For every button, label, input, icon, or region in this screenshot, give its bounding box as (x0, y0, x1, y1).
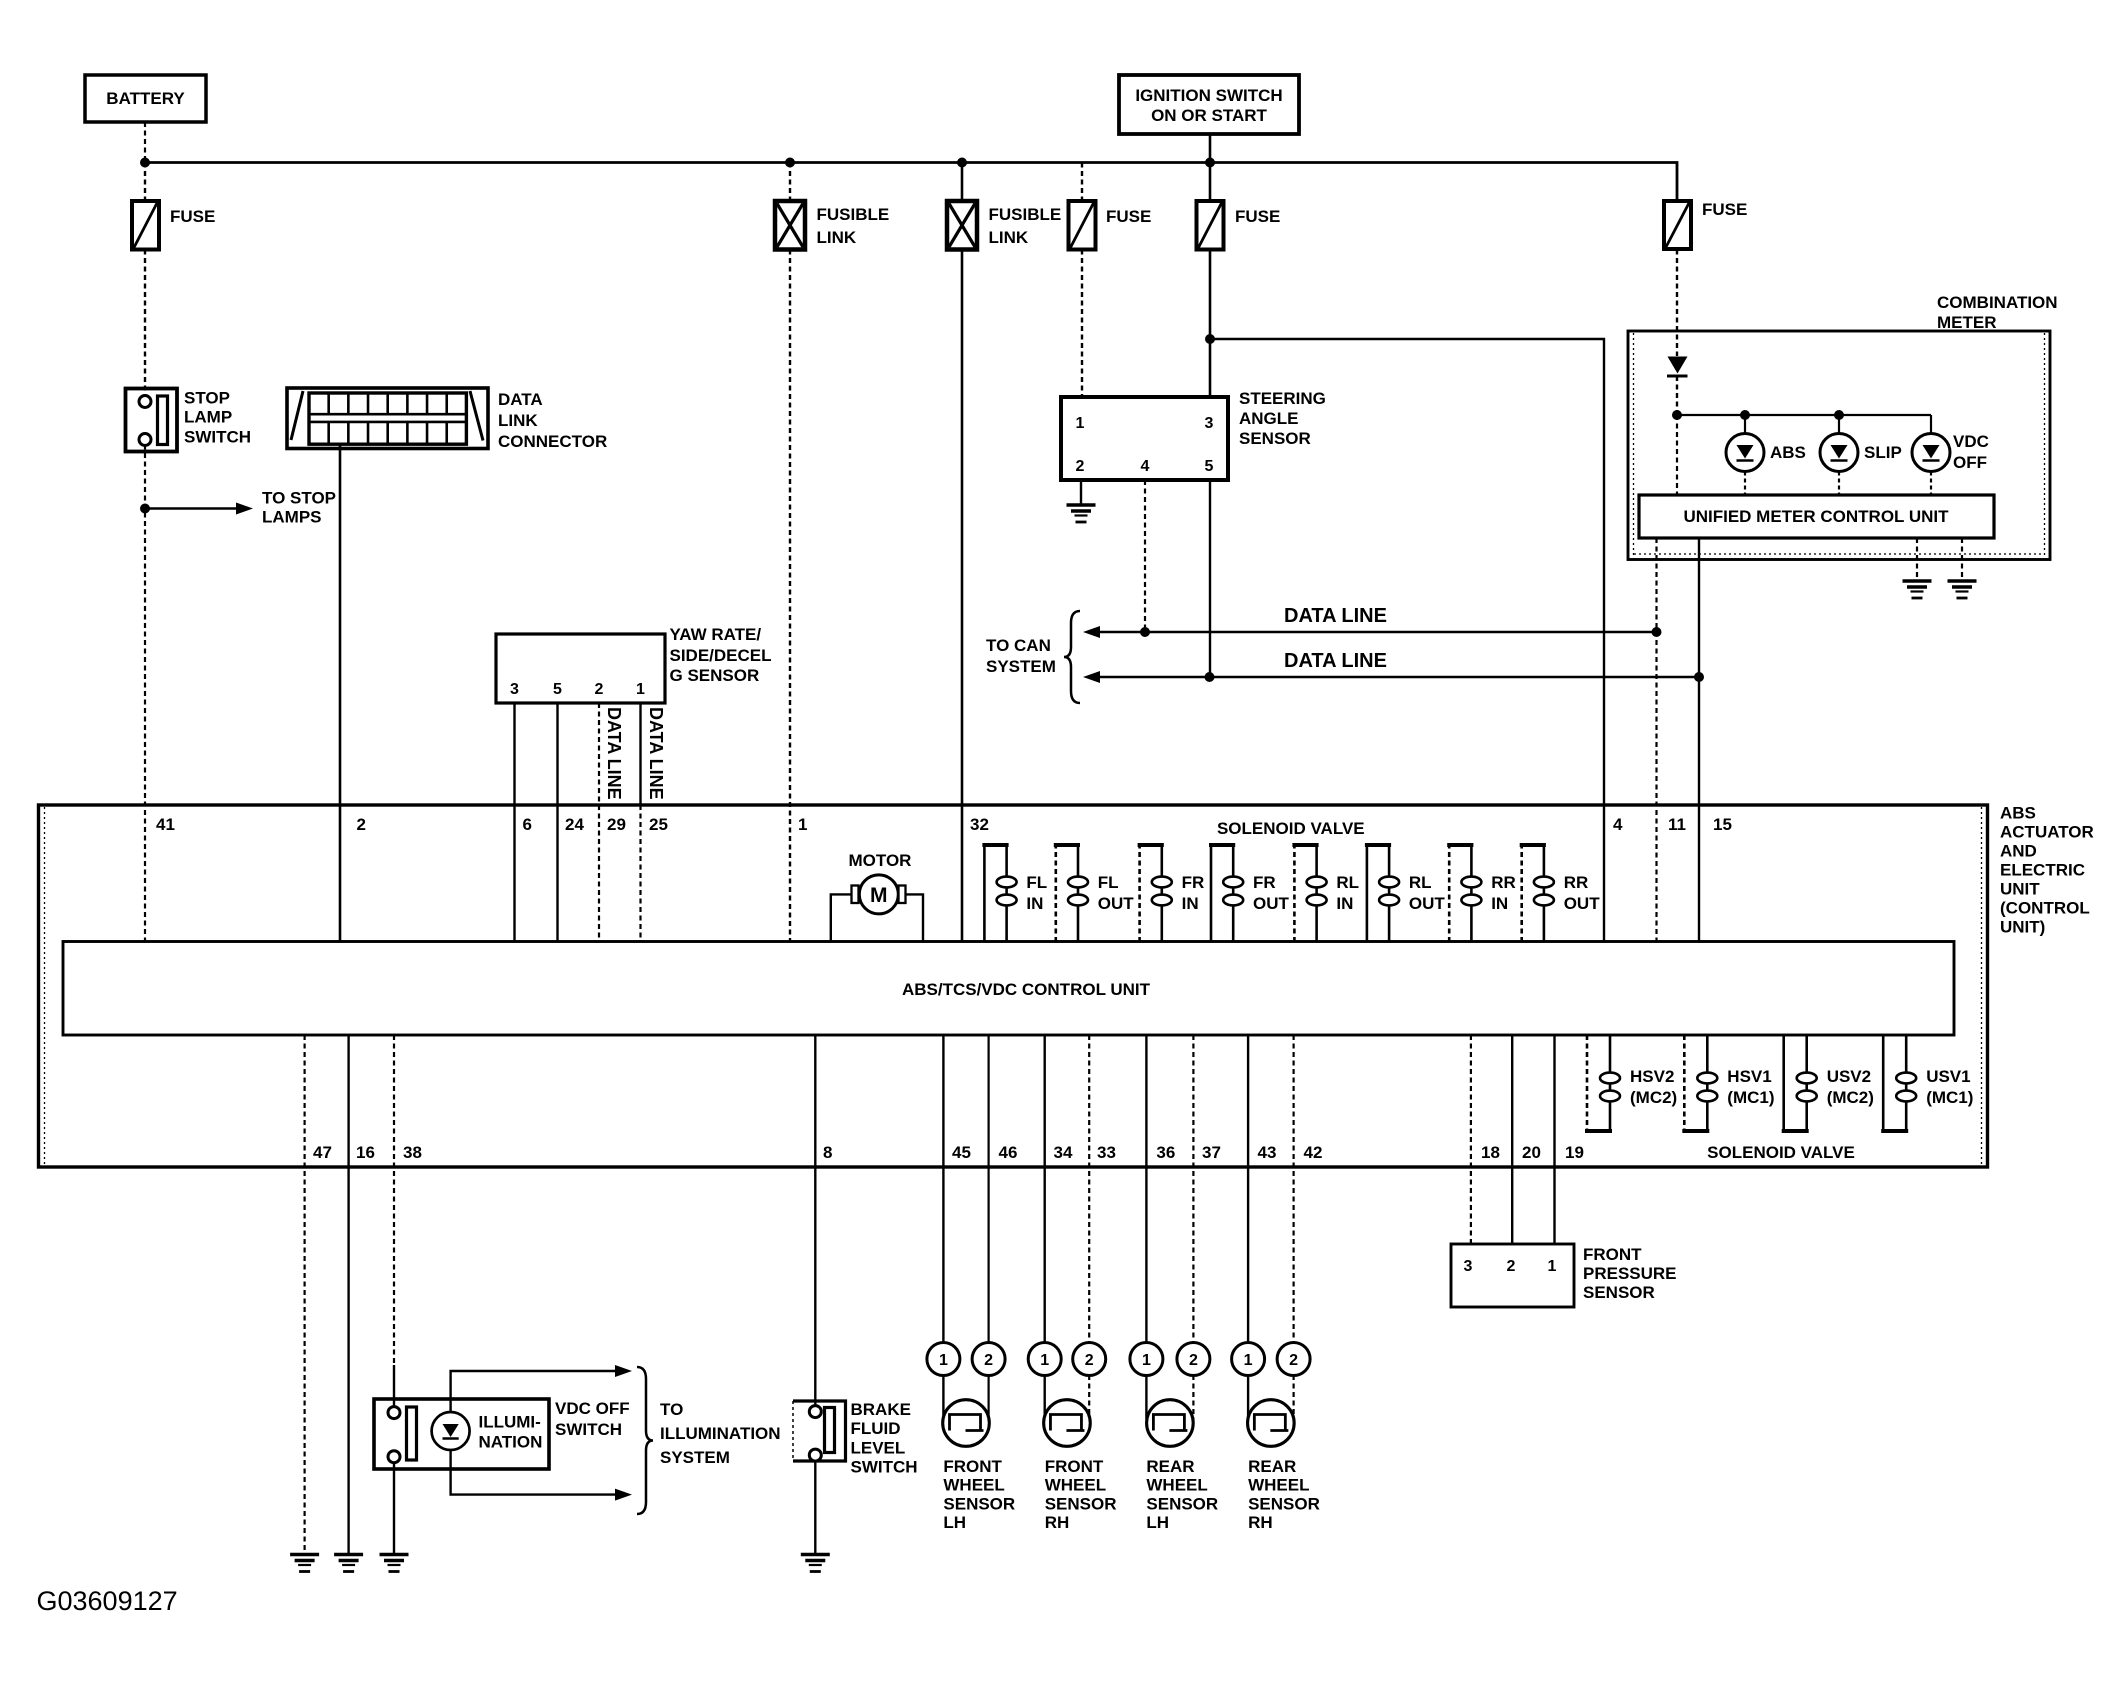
svg-text:IGNITION SWITCH: IGNITION SWITCH (1135, 86, 1282, 105)
wire bus to fuse F1 (dashed) (144, 163, 146, 202)
svg-text:2: 2 (1085, 1352, 1094, 1369)
yaw rate/side/decel G sensor (496, 634, 665, 703)
wire bus to fuse F3 (dashed) (1081, 163, 1083, 202)
svg-text:SENSOR: SENSOR (1045, 1494, 1117, 1513)
svg-text:LAMP: LAMP (184, 408, 232, 427)
wire pin to FRONT wheel sensor RH terminal 1 (1043, 1035, 1045, 1419)
ground pin 38 (380, 1553, 409, 1557)
svg-text:SENSOR: SENSOR (943, 1494, 1015, 1513)
svg-text:COMBINATION: COMBINATION (1937, 293, 2058, 312)
wire pin to FRONT wheel sensor RH terminal 2 (1088, 1035, 1090, 1419)
wire yaw pin 2 to pin 29 (dashed) (598, 703, 600, 942)
svg-text:RH: RH (1045, 1513, 1070, 1532)
node LED SLIP junction (1834, 410, 1844, 420)
svg-text:MOTOR: MOTOR (849, 851, 912, 870)
node stop lamp branch (140, 504, 150, 514)
ground pin 47 (290, 1553, 319, 1557)
svg-text:18: 18 (1481, 1143, 1500, 1162)
svg-text:REAR: REAR (1146, 1457, 1194, 1476)
svg-text:HSV1: HSV1 (1727, 1067, 1771, 1086)
wire pin to FRONT wheel sensor LH terminal 2 (987, 1035, 989, 1419)
combination meter box (1628, 331, 2050, 560)
svg-text:IN: IN (1336, 894, 1353, 913)
wire UMCU to pin 11 (dashed) (1655, 538, 1657, 942)
brace to illumination system (637, 1367, 653, 1514)
svg-text:2: 2 (1076, 458, 1085, 475)
svg-text:41: 41 (156, 815, 175, 834)
svg-text:REAR: REAR (1248, 1457, 1296, 1476)
svg-text:15: 15 (1713, 815, 1732, 834)
svg-text:SYSTEM: SYSTEM (660, 1448, 730, 1467)
svg-text:HSV2: HSV2 (1630, 1067, 1674, 1086)
svg-text:VDC OFF: VDC OFF (555, 1399, 630, 1418)
svg-text:FL: FL (1026, 873, 1047, 892)
svg-text:STOP: STOP (184, 389, 230, 408)
svg-text:YAW RATE/: YAW RATE/ (670, 625, 762, 644)
ignition switch (1119, 75, 1299, 134)
svg-text:UNIFIED METER CONTROL UNIT: UNIFIED METER CONTROL UNIT (1683, 507, 1949, 526)
svg-text:RR: RR (1491, 873, 1516, 892)
wire pin 20 to pressure sensor (1511, 1035, 1513, 1244)
svg-text:(MC1): (MC1) (1727, 1088, 1774, 1107)
svg-text:IN: IN (1026, 894, 1043, 913)
svg-text:ANGLE: ANGLE (1239, 409, 1299, 428)
svg-text:SYSTEM: SYSTEM (986, 657, 1056, 676)
wire yaw pin 5 to pin 24 (556, 703, 558, 942)
svg-text:USV2: USV2 (1827, 1067, 1871, 1086)
svg-text:DATA: DATA (498, 390, 543, 409)
wire pin 8 to brake fluid level switch (814, 1035, 816, 1407)
svg-text:1: 1 (1548, 1258, 1557, 1275)
svg-text:OUT: OUT (1098, 894, 1135, 913)
svg-text:FUSE: FUSE (170, 207, 215, 226)
svg-text:SENSOR: SENSOR (1583, 1283, 1655, 1302)
svg-text:FRONT: FRONT (1045, 1457, 1104, 1476)
svg-text:IN: IN (1182, 894, 1199, 913)
solenoid valve HSV2 (MC2) (1586, 1035, 1589, 1131)
wire pin 4 feed meter segment (1676, 415, 1678, 495)
svg-text:FR: FR (1182, 873, 1205, 892)
solenoid valve USV1 (MC1) (1882, 1035, 1885, 1131)
solenoid valve FL OUT (1055, 845, 1058, 942)
svg-text:20: 20 (1522, 1143, 1541, 1162)
node LED ABS junction (1740, 410, 1750, 420)
fuse F4 (1197, 201, 1224, 250)
wire FL1 to pin 1 (dashed) (789, 250, 791, 943)
svg-text:G SENSOR: G SENSOR (670, 666, 760, 685)
svg-text:33: 33 (1097, 1143, 1116, 1162)
wire diode to LED bus (dashed) (1676, 376, 1678, 415)
svg-text:32: 32 (970, 815, 989, 834)
svg-text:1: 1 (939, 1352, 948, 1369)
svg-text:RL: RL (1409, 873, 1432, 892)
svg-text:1: 1 (1244, 1352, 1253, 1369)
terminal 2 FRONT LH (972, 1343, 1005, 1376)
ground pin 16 (334, 1553, 363, 1557)
wire motor left leg (831, 894, 852, 942)
wire motor right leg (906, 894, 924, 942)
svg-text:ILLUMI-: ILLUMI- (479, 1413, 541, 1432)
svg-text:OFF: OFF (1953, 453, 1987, 472)
svg-text:LINK: LINK (989, 228, 1029, 247)
solenoid valve RR OUT (1520, 845, 1523, 942)
ABS/TCS/VDC control unit box (63, 942, 1954, 1036)
node steering pin 4 data line (1140, 627, 1150, 637)
svg-text:BRAKE: BRAKE (851, 1400, 911, 1419)
svg-text:AND: AND (2000, 842, 2037, 861)
svg-text:1: 1 (636, 681, 645, 698)
wire LED bus (1677, 414, 1931, 416)
fuse F1 (132, 201, 159, 250)
svg-text:43: 43 (1258, 1143, 1277, 1162)
solenoid valve USV2 (MC2) (1782, 1035, 1785, 1131)
svg-text:SLIP: SLIP (1864, 443, 1902, 462)
terminal 1 FRONT LH (927, 1343, 960, 1376)
svg-text:FUSIBLE: FUSIBLE (989, 205, 1062, 224)
svg-text:4: 4 (1613, 815, 1623, 834)
node battery bus junction (140, 158, 150, 168)
wire steering pin 2 to ground (1080, 480, 1082, 505)
data line 2 to CAN (1083, 671, 1100, 683)
REAR wheel sensor RH (1248, 1400, 1295, 1447)
svg-text:FRONT: FRONT (1583, 1245, 1642, 1264)
wire pin to REAR wheel sensor RH terminal 2 (1292, 1035, 1294, 1419)
svg-text:PRESSURE: PRESSURE (1583, 1264, 1677, 1283)
node bus fusible link 2 (957, 158, 967, 168)
node steering pin 5 data line (1205, 672, 1215, 682)
svg-text:WHEEL: WHEEL (1248, 1476, 1309, 1495)
solenoid valve FL IN (983, 845, 986, 942)
svg-text:SOLENOID VALVE: SOLENOID VALVE (1217, 819, 1365, 838)
svg-text:OUT: OUT (1253, 894, 1290, 913)
LED illumination lamp (432, 1412, 470, 1450)
svg-text:METER: METER (1937, 313, 1997, 332)
svg-text:UNIT): UNIT) (2000, 918, 2045, 937)
FRONT wheel sensor RH (1044, 1400, 1091, 1447)
svg-text:(CONTROL: (CONTROL (2000, 899, 2090, 918)
wire DLC to pin 2 (339, 444, 342, 942)
wire illumination bottom arrow (451, 1450, 615, 1495)
wire stop lamp switch to pin 41 (dashed) (144, 445, 146, 943)
svg-text:2: 2 (357, 815, 366, 834)
svg-text:5: 5 (1205, 458, 1214, 475)
svg-text:TO CAN: TO CAN (986, 636, 1051, 655)
svg-text:LH: LH (943, 1513, 966, 1532)
svg-text:2: 2 (984, 1352, 993, 1369)
svg-text:SENSOR: SENSOR (1146, 1494, 1218, 1513)
ground UMCU 2 (1948, 579, 1977, 583)
wire pin to REAR wheel sensor LH terminal 1 (1145, 1035, 1147, 1419)
brace to CAN system (1064, 611, 1080, 703)
wire fuse F3 to steering sensor pin 1 (dashed) (1081, 250, 1083, 398)
wire pin to REAR wheel sensor LH terminal 2 (1192, 1035, 1194, 1419)
svg-text:2: 2 (1189, 1352, 1198, 1369)
svg-text:ON OR START: ON OR START (1151, 106, 1267, 125)
solenoid valve FR OUT (1210, 845, 1213, 942)
svg-text:1: 1 (1076, 415, 1085, 432)
REAR wheel sensor LH (1147, 1400, 1194, 1447)
data link connector (287, 388, 488, 449)
front pressure sensor (1451, 1244, 1574, 1307)
node LED bus left (1672, 410, 1682, 420)
wire UMCU ground 1 (1916, 538, 1918, 581)
node ignition branch to pin 4 (1205, 334, 1215, 344)
svg-text:OUT: OUT (1564, 894, 1601, 913)
battery (85, 75, 206, 122)
fuse F5 (1664, 201, 1691, 249)
svg-text:IN: IN (1491, 894, 1508, 913)
wire pin 19 to pressure sensor (1553, 1035, 1555, 1244)
terminal 1 REAR RH (1232, 1343, 1265, 1376)
svg-text:FR: FR (1253, 873, 1276, 892)
svg-text:5: 5 (553, 681, 562, 698)
node ignition bus junction (1205, 158, 1215, 168)
ABS actuator and electric unit box (39, 805, 1988, 1167)
diode D1 (1668, 357, 1688, 374)
VDC OFF switch (374, 1399, 549, 1469)
FRONT wheel sensor LH (943, 1400, 990, 1447)
svg-text:DATA LINE: DATA LINE (1284, 605, 1387, 627)
wire to stop lamps (145, 507, 236, 509)
wire pin 47 to ground (dashed) (304, 1035, 306, 1555)
ground UMCU 1 (1903, 579, 1932, 583)
wire fuse F5 to diode (dashed) (1676, 250, 1678, 357)
solenoid valve RL OUT (1366, 845, 1369, 942)
wire UMCU ground 2 (1961, 538, 1963, 581)
svg-text:46: 46 (999, 1143, 1018, 1162)
steering angle sensor (1061, 397, 1228, 480)
svg-text:RR: RR (1564, 873, 1589, 892)
svg-text:FUSE: FUSE (1702, 200, 1747, 219)
wire pin 18 to pressure sensor (dashed) (1470, 1035, 1472, 1244)
svg-text:1: 1 (798, 815, 807, 834)
svg-text:16: 16 (356, 1143, 375, 1162)
svg-text:TO STOP: TO STOP (262, 489, 336, 508)
node data line 1 to pin 11 (1652, 627, 1662, 637)
terminal 1 REAR LH (1130, 1343, 1163, 1376)
svg-text:UNIT: UNIT (2000, 880, 2040, 899)
wire battery to bus (dashed) (144, 122, 146, 163)
wire FL2 to pin 32 (961, 250, 964, 943)
svg-text:SENSOR: SENSOR (1239, 429, 1311, 448)
svg-text:TO: TO (660, 1400, 683, 1419)
wire pin 38 to VDC OFF switch (dashed) (393, 1035, 395, 1365)
solenoid valve FR IN (1138, 845, 1141, 942)
svg-text:CONNECTOR: CONNECTOR (498, 432, 607, 451)
svg-text:1: 1 (1142, 1352, 1151, 1369)
svg-text:ABS: ABS (1770, 443, 1806, 462)
svg-text:M: M (870, 884, 888, 907)
wire steering pin 4 to data line 1 (dashed) (1144, 480, 1146, 632)
svg-text:STEERING: STEERING (1239, 389, 1326, 408)
svg-text:25: 25 (649, 815, 668, 834)
svg-text:19: 19 (1565, 1143, 1584, 1162)
svg-text:38: 38 (403, 1143, 422, 1162)
stop lamp switch (126, 389, 178, 452)
svg-text:FLUID: FLUID (851, 1419, 901, 1438)
data line 1 to CAN (1083, 626, 1100, 638)
svg-text:11: 11 (1668, 815, 1686, 834)
solenoid valve RR IN (1448, 845, 1451, 942)
wire brake fluid switch to ground (814, 1460, 816, 1555)
terminal 2 REAR RH (1277, 1343, 1310, 1376)
svg-text:WHEEL: WHEEL (1146, 1476, 1207, 1495)
svg-text:NATION: NATION (479, 1433, 543, 1452)
svg-text:USV1: USV1 (1926, 1067, 1970, 1086)
svg-text:45: 45 (952, 1143, 971, 1162)
svg-text:36: 36 (1156, 1143, 1175, 1162)
terminal 1 FRONT RH (1028, 1343, 1061, 1376)
svg-text:ILLUMINATION: ILLUMINATION (660, 1424, 781, 1443)
svg-text:4: 4 (1141, 458, 1150, 475)
svg-text:SOLENOID VALVE: SOLENOID VALVE (1707, 1143, 1855, 1162)
svg-text:47: 47 (313, 1143, 332, 1162)
svg-text:34: 34 (1054, 1143, 1073, 1162)
svg-text:24: 24 (565, 815, 584, 834)
svg-text:37: 37 (1202, 1143, 1221, 1162)
wire ignition branch to pin 4 (1210, 339, 1604, 942)
svg-text:(MC2): (MC2) (1630, 1088, 1677, 1107)
fusible link FL2 (947, 201, 977, 250)
LED VDC OFF warning lamp (1930, 415, 1932, 434)
svg-text:SENSOR: SENSOR (1248, 1494, 1320, 1513)
wire illumination top arrow (451, 1371, 615, 1412)
fusible link FL1 (775, 201, 805, 250)
svg-text:LINK: LINK (817, 228, 857, 247)
svg-text:RL: RL (1336, 873, 1359, 892)
svg-text:LINK: LINK (498, 411, 538, 430)
svg-text:ELECTRIC: ELECTRIC (2000, 861, 2085, 880)
wire steering pin 5 to data line 2 (1209, 480, 1211, 677)
svg-text:2: 2 (1289, 1352, 1298, 1369)
wire ignition switch to fuse F4 (1209, 134, 1212, 201)
svg-text:ABS: ABS (2000, 804, 2036, 823)
svg-text:LEVEL: LEVEL (851, 1439, 906, 1458)
wire yaw pin 1 to pin 25 (639, 703, 641, 805)
svg-text:G03609127: G03609127 (37, 1586, 178, 1616)
LED SLIP warning lamp (1838, 415, 1840, 434)
fuse F3 (1069, 201, 1096, 250)
svg-text:FRONT: FRONT (943, 1457, 1002, 1476)
svg-text:LH: LH (1146, 1513, 1169, 1532)
solenoid valve HSV1 (MC1) (1683, 1035, 1686, 1131)
svg-text:WHEEL: WHEEL (943, 1476, 1004, 1495)
svg-text:ABS/TCS/VDC CONTROL UNIT: ABS/TCS/VDC CONTROL UNIT (902, 980, 1151, 999)
svg-text:ACTUATOR: ACTUATOR (2000, 823, 2094, 842)
svg-text:2: 2 (595, 681, 604, 698)
wire bus to FL2 (961, 163, 964, 202)
node data line 2 to pin 15 (1694, 672, 1704, 682)
svg-text:3: 3 (510, 681, 519, 698)
svg-text:1: 1 (1040, 1352, 1049, 1369)
wire fuse F1 to stop lamp switch (dashed) (144, 250, 146, 397)
wire UMCU to pin 15 (1698, 538, 1700, 942)
node bus fusible link 1 (785, 158, 795, 168)
wire pin to REAR wheel sensor RH terminal 1 (1247, 1035, 1249, 1419)
svg-text:6: 6 (523, 815, 532, 834)
svg-text:(MC1): (MC1) (1926, 1088, 1973, 1107)
svg-text:2: 2 (1507, 1258, 1516, 1275)
wire main power bus (145, 163, 1677, 202)
svg-text:OUT: OUT (1409, 894, 1446, 913)
svg-text:29: 29 (607, 815, 626, 834)
svg-text:(MC2): (MC2) (1827, 1088, 1874, 1107)
svg-text:3: 3 (1205, 415, 1214, 432)
svg-text:FUSE: FUSE (1235, 207, 1280, 226)
svg-text:DATA LINE: DATA LINE (604, 707, 624, 800)
solenoid valve RL IN (1293, 845, 1296, 942)
terminal 2 FRONT RH (1073, 1343, 1106, 1376)
svg-text:FL: FL (1098, 873, 1119, 892)
wire pin to FRONT wheel sensor LH terminal 1 (942, 1035, 944, 1419)
terminal 2 REAR LH (1177, 1343, 1210, 1376)
svg-text:LAMPS: LAMPS (262, 508, 322, 527)
wire bus to FL1 (dashed) (789, 163, 791, 202)
unified meter control unit (1639, 495, 1994, 538)
svg-text:SWITCH: SWITCH (555, 1420, 622, 1439)
ground brake fluid switch (801, 1553, 830, 1557)
svg-text:BATTERY: BATTERY (106, 89, 185, 108)
wire yaw pin 3 to pin 6 (513, 703, 515, 942)
wire VDC OFF switch to ground (393, 1462, 395, 1555)
brake fluid level switch (793, 1401, 846, 1461)
LED ABS warning lamp (1744, 415, 1746, 434)
svg-text:DATA LINE: DATA LINE (1284, 650, 1387, 672)
svg-text:42: 42 (1304, 1143, 1323, 1162)
wire fuse F4 to steering sensor pin 3 (1209, 250, 1212, 398)
wire pin 16 to ground (347, 1035, 349, 1555)
svg-text:SIDE/DECEL: SIDE/DECEL (670, 646, 772, 665)
ground steering sensor (1067, 503, 1096, 507)
svg-text:VDC: VDC (1953, 432, 1989, 451)
svg-text:SWITCH: SWITCH (184, 428, 251, 447)
svg-text:FUSIBLE: FUSIBLE (817, 205, 890, 224)
svg-text:8: 8 (823, 1143, 832, 1162)
svg-text:3: 3 (1464, 1258, 1473, 1275)
svg-text:WHEEL: WHEEL (1045, 1476, 1106, 1495)
svg-text:SWITCH: SWITCH (851, 1458, 918, 1477)
svg-text:RH: RH (1248, 1513, 1273, 1532)
svg-text:DATA LINE: DATA LINE (646, 707, 666, 800)
svg-text:FUSE: FUSE (1106, 207, 1151, 226)
